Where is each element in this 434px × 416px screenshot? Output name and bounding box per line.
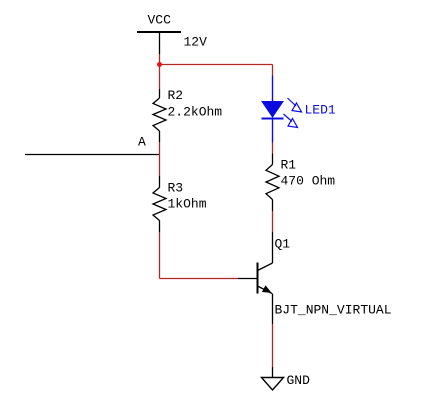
- svg-text:GND: GND: [287, 373, 311, 388]
- svg-text:R2: R2: [168, 88, 184, 103]
- resistor R2: [153, 89, 166, 142]
- wire junction to R2: [159, 65, 161, 90]
- wire top down to LED: [272, 65, 274, 76]
- svg-text:A: A: [138, 135, 146, 150]
- resistor R1: [266, 154, 279, 212]
- wire R1 to Q1 collector: [272, 211, 274, 232]
- wire LED to R1: [272, 143, 274, 154]
- LED triangle: [262, 102, 283, 118]
- wire Q1 emitter to GND: [272, 324, 274, 367]
- node A wire (horizontal): [25, 154, 160, 156]
- LED light arrow upper: [288, 98, 302, 112]
- wire R3 down to base level: [159, 232, 161, 279]
- svg-text:2.2kOhm: 2.2kOhm: [168, 105, 223, 120]
- LED cathode bar: [262, 118, 284, 120]
- svg-text:BJT_NPN_VIRTUAL: BJT_NPN_VIRTUAL: [275, 303, 392, 318]
- svg-text:VCC: VCC: [148, 13, 172, 28]
- wire into ground: [272, 367, 274, 378]
- svg-text:R3: R3: [168, 181, 184, 196]
- ground symbol: [262, 378, 284, 391]
- wire node A to R3: [159, 142, 161, 176]
- svg-text:LED1: LED1: [305, 103, 336, 118]
- LED pin bottom: [272, 119, 274, 143]
- svg-text:Q1: Q1: [275, 237, 291, 252]
- wire junction to LED column (top horizontal): [160, 64, 273, 66]
- svg-text:12V: 12V: [184, 35, 208, 50]
- svg-text:R1: R1: [281, 158, 297, 173]
- LED D1 pin top: [272, 76, 274, 103]
- svg-text:1kOhm: 1kOhm: [168, 197, 207, 212]
- wire VCC to junction: [159, 54, 161, 65]
- power symbol VCC: [137, 32, 181, 54]
- LED light arrow lower: [284, 114, 298, 128]
- resistor R3: [153, 176, 166, 232]
- wire to Q1 base: [160, 278, 239, 280]
- transistor Q1: [238, 232, 273, 324]
- junction dot: [157, 62, 162, 67]
- Q1 emitter arrow: [263, 286, 270, 292]
- svg-text:470 Ohm: 470 Ohm: [281, 174, 336, 189]
